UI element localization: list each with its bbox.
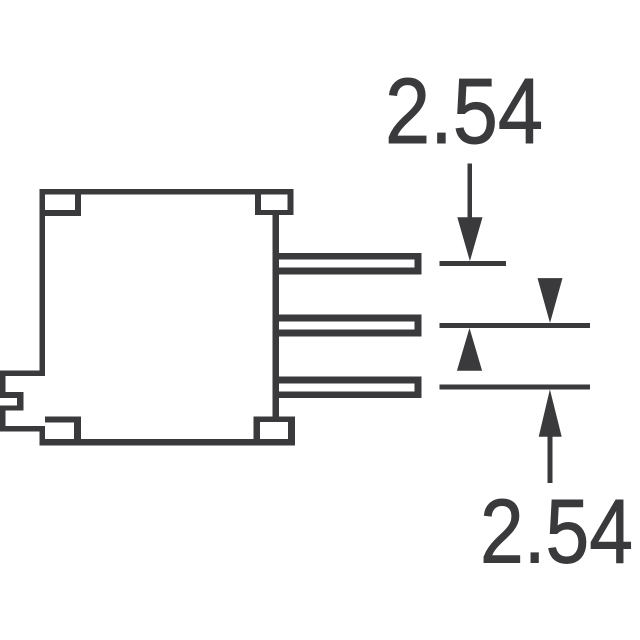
svg-text:2.54: 2.54 — [480, 481, 633, 582]
svg-text:2.54: 2.54 — [385, 59, 543, 163]
